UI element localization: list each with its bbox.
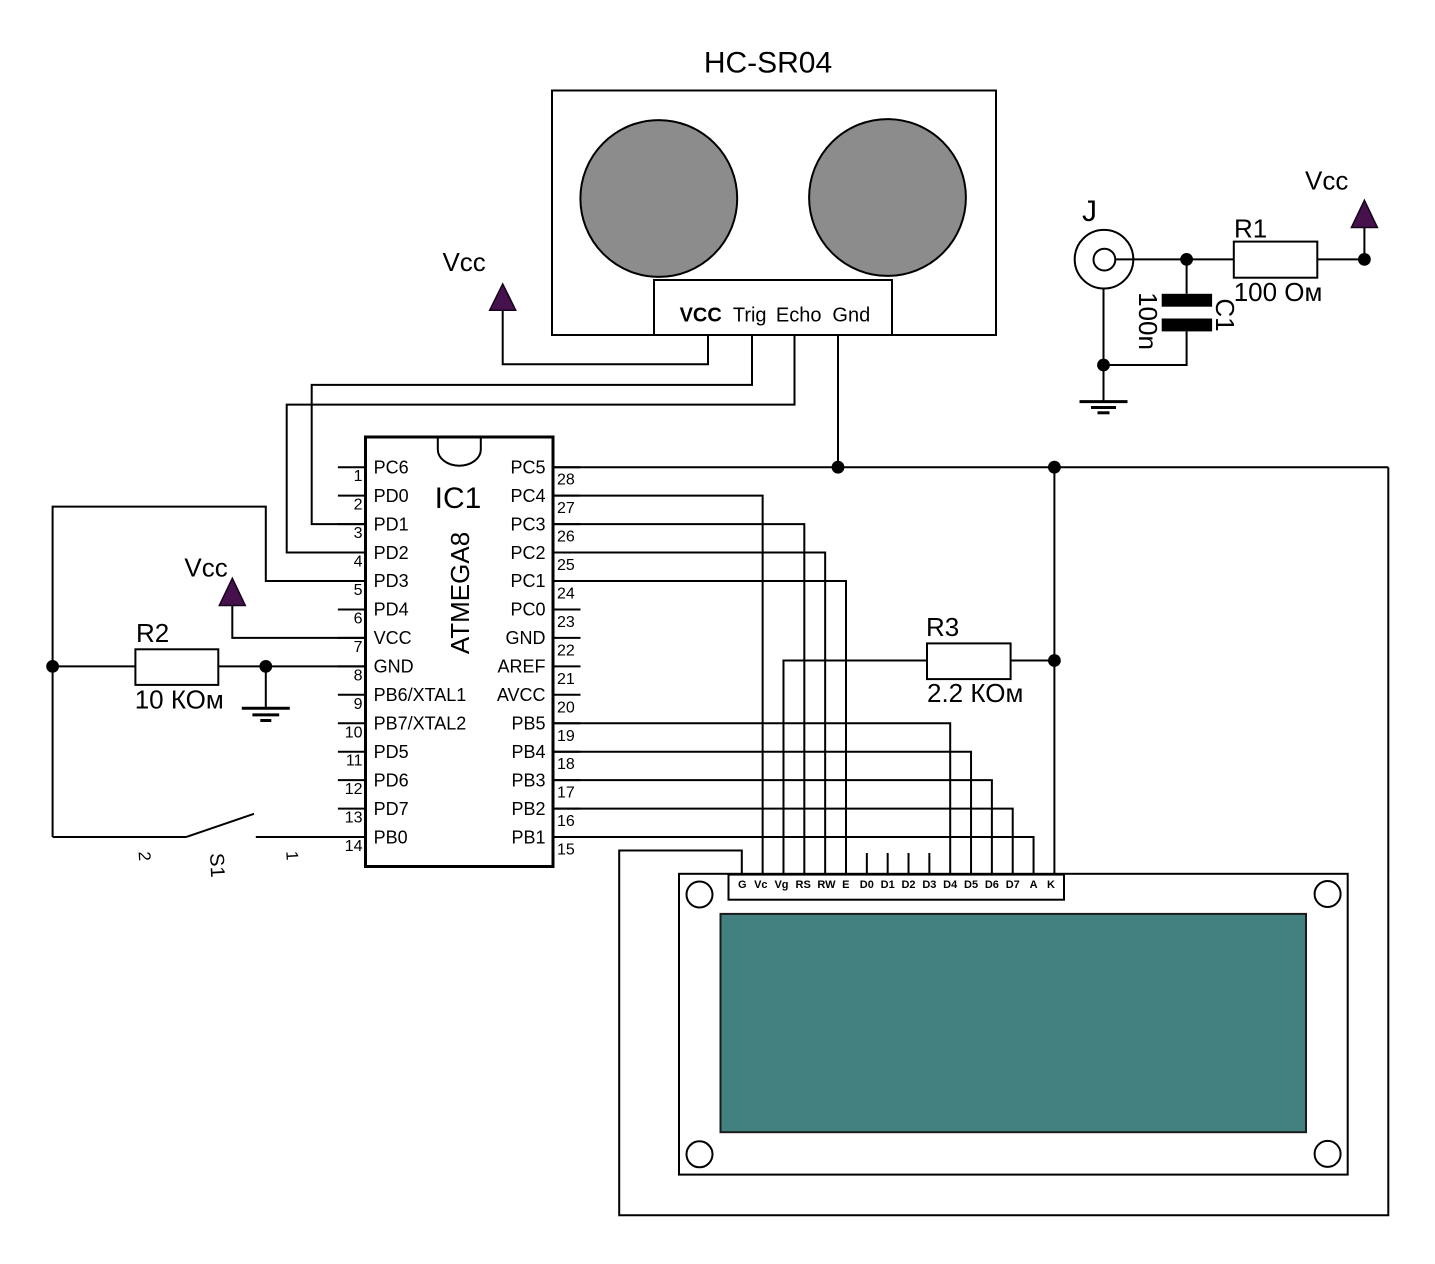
svg-text:J: J — [1082, 195, 1097, 228]
svg-text:7: 7 — [354, 639, 363, 656]
wire HC-SR04 Trig to IC1 PD1 — [312, 335, 752, 524]
node left rail R2 junction — [46, 660, 59, 673]
LCD mounting hole top-left — [687, 882, 713, 908]
svg-text:22: 22 — [557, 642, 575, 659]
wire PB1 pin15 to LCD A — [553, 837, 1034, 875]
svg-text:GND: GND — [506, 628, 546, 648]
wire stubs LCD D0-D3 — [867, 853, 930, 875]
svg-text:PD0: PD0 — [374, 486, 409, 506]
wire HC-SR04 VCC to Vcc arrow — [503, 310, 708, 364]
svg-text:21: 21 — [557, 671, 575, 688]
svg-text:PC0: PC0 — [510, 600, 545, 620]
svg-text:PB6/XTAL1: PB6/XTAL1 — [374, 685, 467, 705]
svg-text:PC6: PC6 — [374, 457, 409, 477]
svg-text:Vg: Vg — [774, 879, 788, 891]
LCD mounting hole bottom-left — [687, 1141, 713, 1167]
LCD mounting hole bottom-right — [1315, 1141, 1341, 1167]
svg-text:26: 26 — [557, 529, 575, 546]
svg-text:5: 5 — [354, 582, 363, 599]
svg-text:RW: RW — [817, 879, 836, 891]
svg-text:2: 2 — [135, 851, 154, 861]
wire junction to ground — [265, 666, 267, 708]
svg-text:PB2: PB2 — [511, 799, 545, 819]
svg-text:15: 15 — [557, 842, 575, 859]
wire S1 left lead — [53, 836, 186, 838]
power symbol Vcc (sensor) — [490, 284, 516, 310]
svg-text:2.2 КОм: 2.2 КОм — [927, 678, 1023, 708]
IC1 pin stubs — [338, 467, 581, 837]
svg-text:A: A — [1030, 879, 1038, 891]
svg-text:11: 11 — [346, 753, 363, 770]
svg-text:27: 27 — [557, 500, 575, 517]
svg-text:PC3: PC3 — [510, 514, 545, 534]
svg-text:23: 23 — [557, 614, 575, 631]
svg-text:14: 14 — [345, 838, 363, 855]
svg-text:GND: GND — [374, 657, 414, 677]
svg-text:PB0: PB0 — [374, 827, 408, 847]
svg-text:AVCC: AVCC — [497, 685, 546, 705]
capacitor C1 bottom plate — [1162, 319, 1212, 332]
svg-text:D2: D2 — [901, 879, 915, 891]
svg-text:AREF: AREF — [497, 657, 545, 677]
svg-text:S1: S1 — [205, 853, 228, 879]
LCD mounting hole top-right — [1315, 881, 1341, 907]
svg-text:RS: RS — [796, 879, 811, 891]
wire K column down to LCD K — [1053, 467, 1055, 874]
svg-text:PB4: PB4 — [511, 742, 545, 762]
svg-text:Vcc: Vcc — [1305, 165, 1348, 195]
op IC1 ATMEGA8 body — [366, 437, 554, 867]
svg-text:8: 8 — [354, 667, 363, 684]
resistor R1 — [1234, 242, 1318, 278]
svg-text:PD4: PD4 — [374, 600, 409, 620]
svg-text:10: 10 — [345, 724, 363, 741]
svg-text:100 Ом: 100 Ом — [1234, 277, 1323, 307]
svg-text:D1: D1 — [881, 879, 895, 891]
node J/C1/R1 junction — [1180, 253, 1193, 266]
IC1 left pin labels — [374, 457, 467, 847]
wire LCD ground frame — [619, 467, 1388, 1215]
wire PB3 pin17 to LCD D6 — [553, 780, 992, 874]
node R1/Vcc junction — [1358, 253, 1371, 266]
wire J sleeve to ground — [1103, 289, 1105, 402]
HC-SR04 sensor module body — [552, 91, 996, 336]
svg-text:PC1: PC1 — [510, 571, 545, 591]
svg-text:K: K — [1047, 879, 1055, 891]
wire PB2 pin16 to LCD D7 — [553, 809, 1013, 875]
svg-text:HC-SR04: HC-SR04 — [704, 47, 832, 80]
svg-text:PC2: PC2 — [510, 543, 545, 563]
HC-SR04 right transducer — [809, 119, 966, 276]
resistor R3 — [927, 643, 1011, 679]
wire Vcc arrow to IC1 VCC pin7 — [232, 606, 365, 638]
capacitor C1 top plate — [1162, 294, 1212, 307]
svg-text:PC5: PC5 — [510, 457, 545, 477]
wire junction down to C1 — [1186, 259, 1188, 293]
HC-SR04 pin header box — [654, 280, 892, 335]
svg-text:17: 17 — [557, 785, 575, 802]
connector J outer ring — [1075, 230, 1134, 289]
LCD pin header — [729, 875, 1065, 900]
wire PC2 pin25 to LCD RW — [553, 553, 825, 875]
svg-text:PC4: PC4 — [510, 486, 545, 506]
power symbol Vcc (left) — [219, 578, 245, 605]
svg-text:D6: D6 — [985, 879, 999, 891]
svg-text:ATMEGA8: ATMEGA8 — [445, 532, 475, 654]
wire PC5 net (pin28) to LCD frame — [553, 466, 1388, 468]
svg-text:Echo: Echo — [776, 305, 822, 327]
svg-text:VCC: VCC — [680, 305, 722, 327]
svg-text:E: E — [842, 879, 849, 891]
svg-text:D3: D3 — [922, 879, 936, 891]
svg-text:PD1: PD1 — [374, 514, 409, 534]
ground (left) — [242, 708, 290, 720]
svg-text:24: 24 — [557, 586, 575, 603]
wire R2 to IC1 GND pin8 — [218, 665, 365, 667]
switch S1 blade — [186, 814, 254, 837]
svg-text:20: 20 — [557, 699, 575, 716]
wire Vcc arrow drop — [1363, 228, 1365, 260]
svg-text:18: 18 — [557, 756, 575, 773]
wire PC3 pin26 to LCD RS — [553, 524, 804, 875]
node R2 right junction — [259, 660, 272, 673]
svg-text:1: 1 — [354, 468, 363, 485]
svg-text:2: 2 — [354, 497, 363, 514]
svg-text:D5: D5 — [964, 879, 978, 891]
svg-text:G: G — [738, 879, 747, 891]
svg-text:10 КОм: 10 КОм — [135, 685, 224, 715]
LCD module board — [679, 874, 1348, 1175]
svg-text:D4: D4 — [943, 879, 958, 891]
wire PC1 pin24 to LCD E — [553, 581, 846, 875]
ground (right) — [1080, 402, 1128, 413]
svg-text:Vcc: Vcc — [184, 552, 227, 582]
wire J to junction — [1115, 258, 1186, 260]
IC1 left pin numbers 1-14 — [345, 468, 363, 855]
svg-text:9: 9 — [354, 696, 363, 713]
svg-text:PD7: PD7 — [374, 799, 409, 819]
svg-text:16: 16 — [557, 813, 575, 830]
wire LCD Vg up to R3 — [783, 661, 927, 875]
node R3/K junction — [1048, 654, 1061, 667]
wire HC-SR04 Echo to IC1 PD2 — [287, 335, 795, 553]
wire junction to R1 — [1187, 258, 1234, 260]
node K/PC5 junction — [1048, 461, 1061, 474]
svg-text:PD2: PD2 — [374, 543, 409, 563]
svg-text:12: 12 — [345, 781, 363, 798]
LCD pin header labels — [738, 879, 1055, 891]
node C1/J ground junction — [1097, 359, 1110, 372]
svg-text:Trig: Trig — [733, 305, 767, 327]
svg-text:R3: R3 — [926, 612, 959, 642]
svg-text:D0: D0 — [860, 879, 874, 891]
wire S1 pole via left rail to IC1 PD3 — [53, 507, 366, 837]
svg-text:PB3: PB3 — [511, 770, 545, 790]
wire S1 to IC1 PB0 pin14 — [256, 836, 366, 838]
wire PB5 pin19 to LCD D4 — [553, 723, 950, 874]
svg-text:Vc: Vc — [754, 879, 767, 891]
power symbol Vcc (top right) — [1351, 200, 1377, 227]
svg-text:3: 3 — [354, 525, 363, 542]
svg-text:4: 4 — [354, 554, 363, 571]
svg-text:28: 28 — [557, 472, 575, 489]
wire C1 bottom to ground net — [1104, 331, 1187, 365]
svg-text:25: 25 — [557, 557, 575, 574]
svg-text:PB5: PB5 — [511, 713, 545, 733]
svg-text:Vcc: Vcc — [442, 247, 485, 277]
svg-text:PD5: PD5 — [374, 742, 409, 762]
IC1 top notch — [438, 439, 481, 466]
HC-SR04 left transducer — [580, 120, 737, 277]
svg-text:D7: D7 — [1006, 879, 1020, 891]
svg-text:6: 6 — [354, 610, 363, 627]
IC1 right pin labels — [497, 457, 546, 847]
svg-text:PB7/XTAL2: PB7/XTAL2 — [374, 713, 467, 733]
LCD screen — [721, 914, 1307, 1132]
wire left rail to R2 — [53, 665, 136, 667]
svg-text:R1: R1 — [1234, 213, 1267, 243]
svg-text:R2: R2 — [136, 618, 169, 648]
svg-text:13: 13 — [345, 810, 363, 827]
resistor R2 — [135, 649, 218, 685]
svg-text:IC1: IC1 — [435, 482, 482, 515]
svg-text:Gnd: Gnd — [832, 305, 870, 327]
svg-text:PD6: PD6 — [374, 770, 409, 790]
svg-text:PB1: PB1 — [511, 827, 545, 847]
wire PC4 pin27 to LCD Vc — [553, 496, 763, 875]
svg-text:VCC: VCC — [374, 628, 412, 648]
svg-text:100n: 100n — [1133, 292, 1163, 350]
wire R1 to Vcc node — [1317, 258, 1364, 260]
connector J inner pin — [1094, 249, 1116, 271]
svg-text:PD3: PD3 — [374, 571, 409, 591]
wire HC-SR04 Gnd down to PC5 net — [837, 335, 839, 467]
node Gnd/PC5 junction — [832, 461, 845, 474]
svg-text:C1: C1 — [1210, 298, 1240, 331]
svg-text:19: 19 — [557, 728, 575, 745]
IC1 right pin numbers 28-15 — [557, 472, 575, 859]
wire R3 to K column — [1011, 660, 1055, 662]
svg-text:1: 1 — [282, 850, 301, 860]
wire PB4 pin18 to LCD D5 — [553, 752, 971, 875]
